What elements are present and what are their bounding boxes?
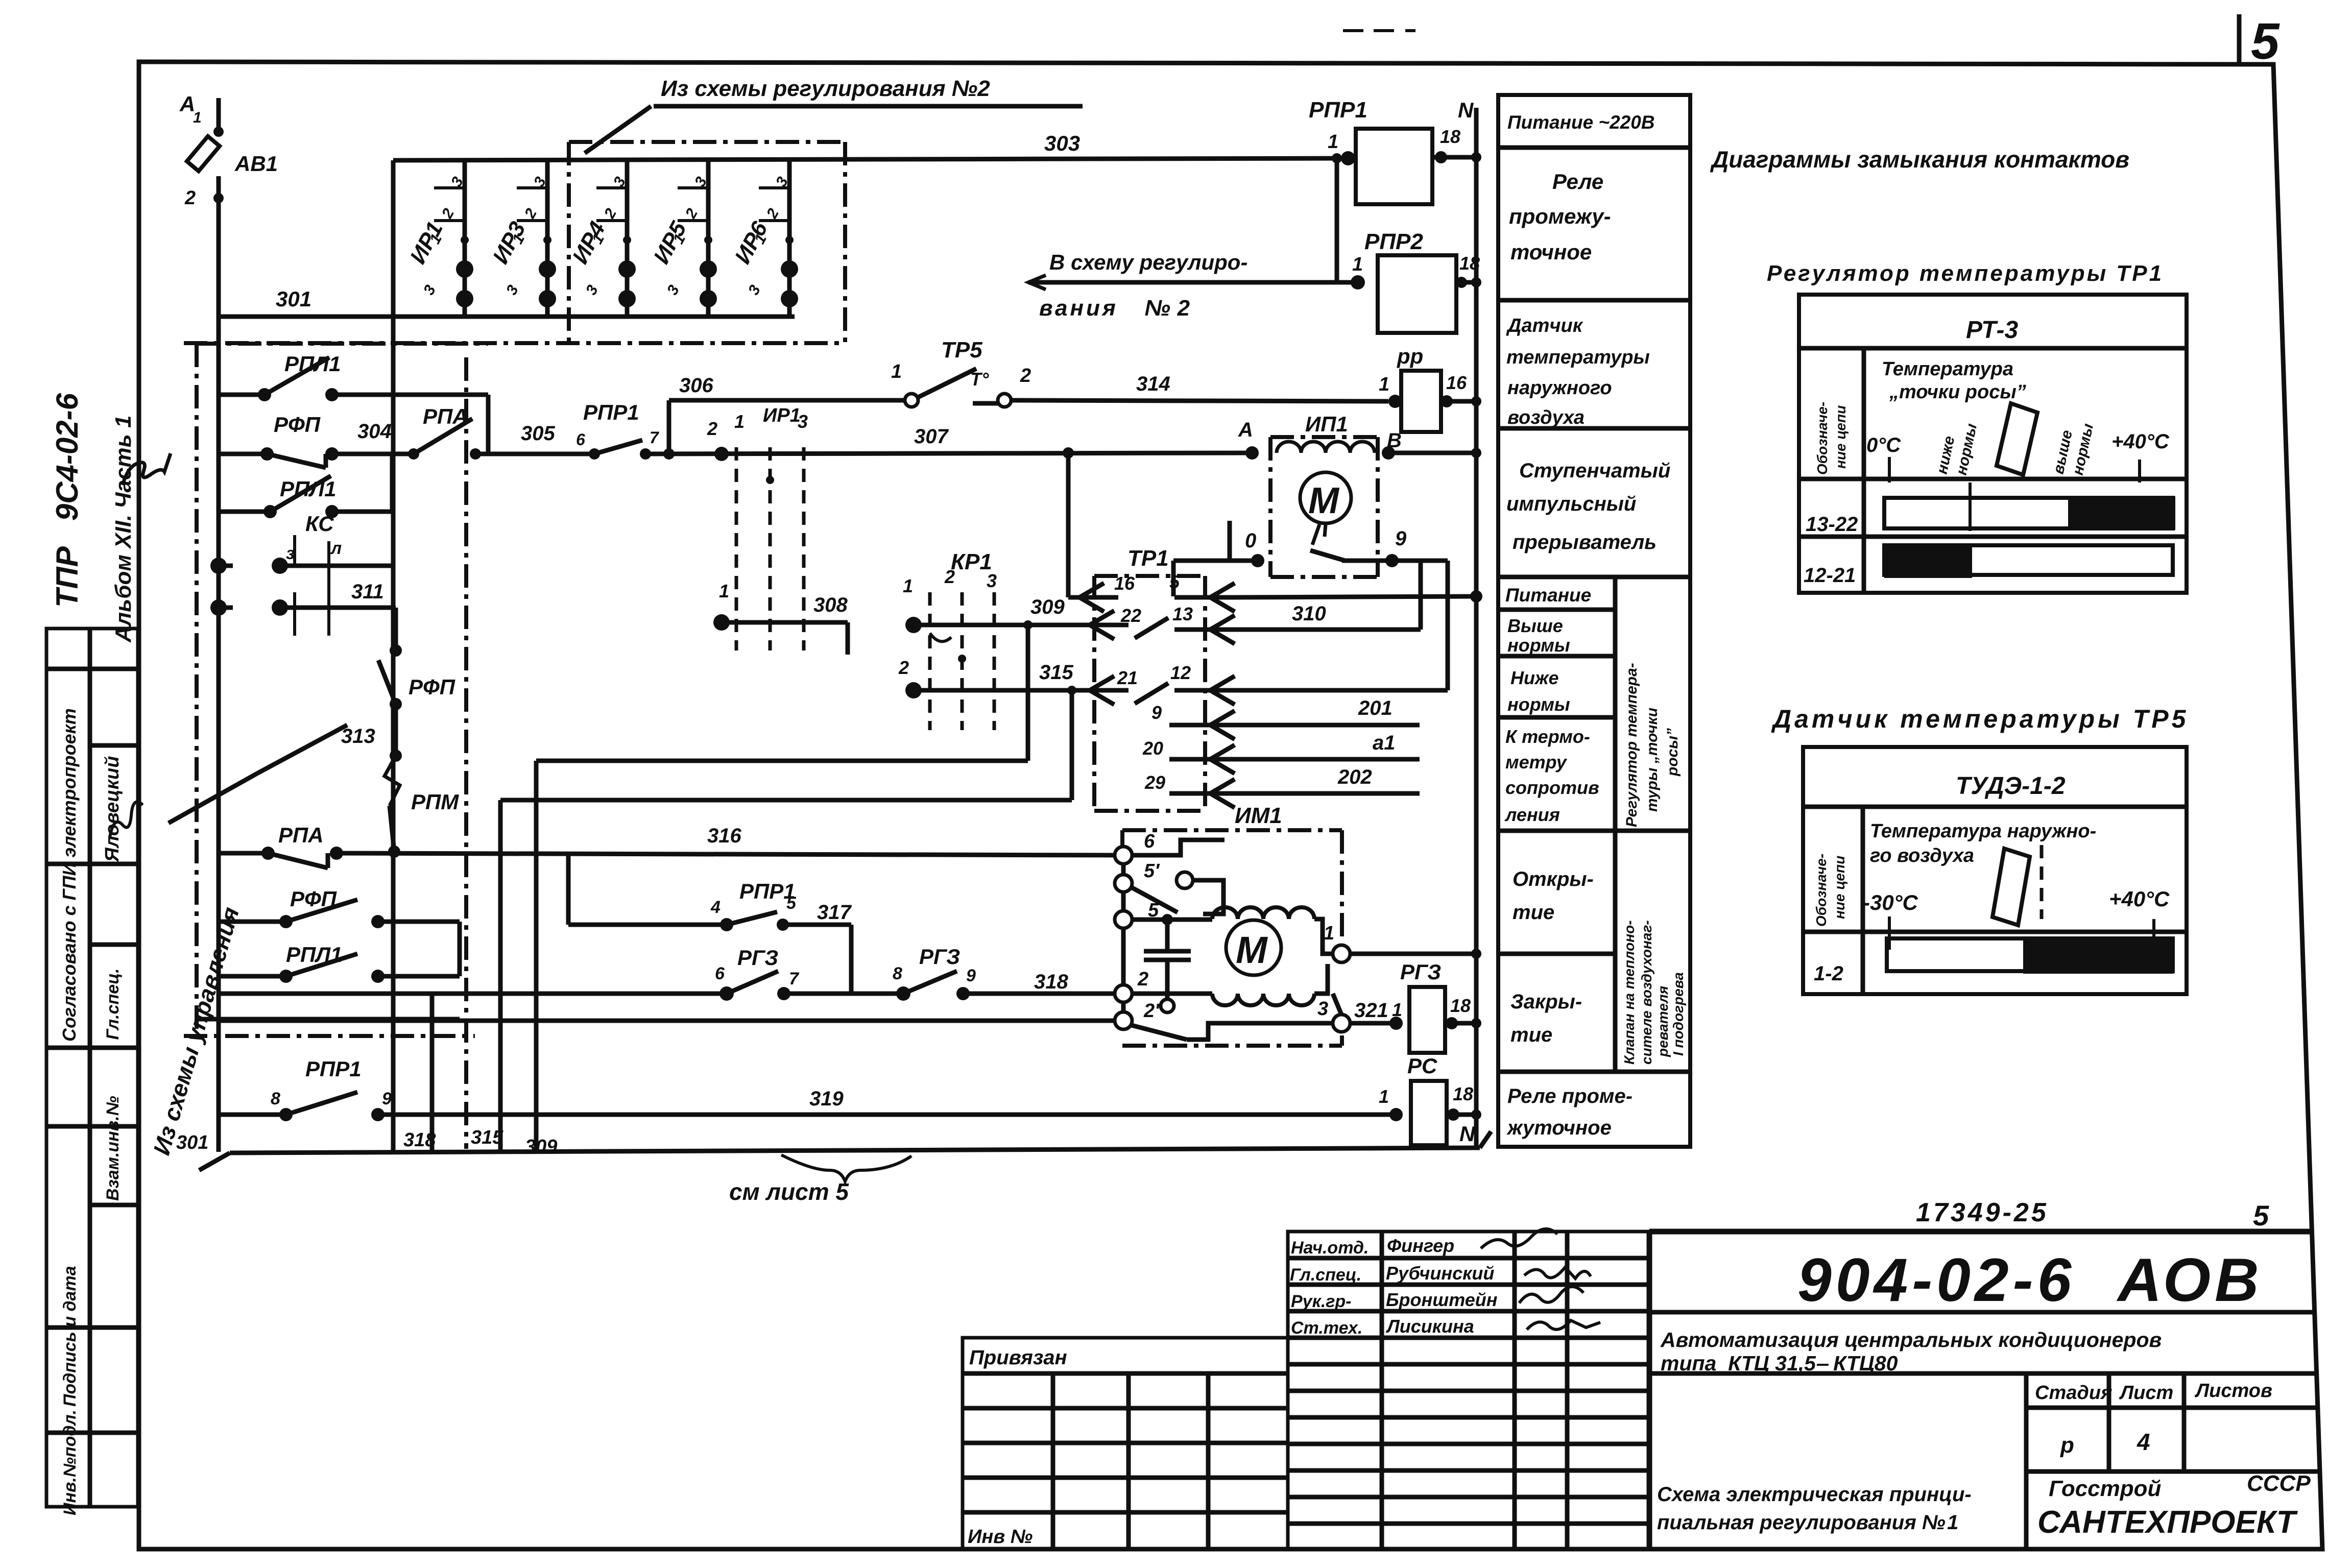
svg-text:РТ-3: РТ-3	[1966, 317, 2018, 344]
svg-text:воздуха: воздуха	[1507, 407, 1585, 428]
svg-text:Схема электрическая принци-: Схема электрическая принци-	[1657, 1483, 1972, 1506]
svg-text:5′: 5′	[1144, 860, 1160, 882]
relay coil PP	[1388, 371, 1476, 432]
svg-text:Гл.спец.: Гл.спец.	[1290, 1265, 1361, 1285]
svg-text:РГЗ: РГЗ	[737, 946, 778, 970]
svg-text:2: 2	[1137, 969, 1148, 990]
IM1 terminals left	[1115, 840, 1333, 1040]
TUDE-1-2 diagram table	[1803, 747, 2187, 994]
svg-text:ления: ления	[1504, 804, 1560, 825]
contact RPL1 row2	[219, 454, 392, 518]
vertical line x770 (IR box left edge / link)	[391, 160, 396, 1027]
svg-text:301: 301	[276, 287, 311, 311]
svg-text:309: 309	[1030, 596, 1065, 618]
svg-text:Т°: Т°	[970, 369, 989, 390]
svg-text:Лист: Лист	[2119, 1382, 2173, 1404]
svg-text:ИМ1: ИМ1	[1235, 803, 1282, 828]
svg-text:Альбом ХII. Часть 1: Альбом ХII. Часть 1	[111, 416, 136, 643]
svg-text:Гл.спец.: Гл.спец.	[103, 968, 123, 1045]
svg-text:Питание ~220В: Питание ~220В	[1507, 112, 1655, 133]
svg-text:12-21: 12-21	[1804, 564, 1856, 587]
column IR6	[730, 160, 798, 317]
svg-text:3: 3	[1317, 998, 1328, 1020]
svg-text:нормы: нормы	[1507, 694, 1570, 715]
svg-text:Листов: Листов	[2194, 1380, 2272, 1402]
svg-text:2: 2	[707, 418, 717, 439]
svg-text:пиальная регулирования № 1: пиальная регулирования № 1	[1657, 1511, 1958, 1534]
svg-text:Диаграммы замыкания контактов: Диаграммы замыкания контактов	[1710, 146, 2129, 173]
svg-text:Ст.тех.: Ст.тех.	[1291, 1318, 1362, 1338]
svg-text:з: з	[286, 544, 295, 563]
svg-text:+40°С: +40°С	[2109, 887, 2170, 911]
IM1 motor	[1132, 907, 1476, 1032]
title block signature table	[1288, 1232, 1649, 1549]
svg-text:ТР1: ТР1	[1127, 546, 1169, 571]
svg-text:1-2: 1-2	[1814, 962, 1843, 985]
left vertical bus	[217, 317, 221, 1152]
svg-text:САНТЕХПРОЕКТ: САНТЕХПРОЕКТ	[2037, 1505, 2298, 1540]
svg-text:9: 9	[1395, 527, 1407, 550]
svg-text:ние цепи: ние цепи	[1833, 405, 1849, 469]
svg-text:РФП: РФП	[274, 413, 321, 437]
svg-text:319: 319	[809, 1088, 844, 1110]
wire/bus 301	[219, 315, 795, 319]
row 1999 from IM1 2'	[219, 1019, 1116, 1023]
verticals to bottom bus	[430, 994, 435, 1152]
svg-text:Ступенчатый: Ступенчатый	[1519, 460, 1670, 482]
contact RPL1 row1	[219, 357, 488, 454]
svg-text:904-02-6 АОВ: 904-02-6 АОВ	[1797, 1246, 2263, 1314]
svg-text:2: 2	[1020, 365, 1031, 387]
stray dashes top middle	[1343, 29, 1363, 32]
svg-text:18: 18	[1440, 126, 1460, 147]
center dash-dot boundary	[464, 357, 468, 1149]
svg-text:304: 304	[357, 420, 392, 443]
left stamp table	[46, 629, 138, 1507]
svg-text:Автоматизация центральных конд: Автоматизация центральных кондиционеров	[1660, 1328, 2162, 1352]
svg-text:Выше: Выше	[1507, 615, 1563, 636]
svg-text:310: 310	[1292, 602, 1326, 625]
svg-text:ние цепи: ние цепи	[1832, 856, 1847, 919]
TP1 right pins 5 13 12	[1174, 583, 1236, 705]
svg-text:7: 7	[650, 428, 660, 447]
svg-text:1: 1	[1324, 923, 1334, 944]
middle legend table	[1498, 95, 1690, 1147]
svg-text:4: 4	[710, 898, 721, 917]
svg-text:типа КТЦ 31,5‒ КТЦ80: типа КТЦ 31,5‒ КТЦ80	[1661, 1352, 1898, 1375]
svg-text:Регулятор темпера-: Регулятор темпера-	[1623, 663, 1640, 827]
svg-text:3: 3	[798, 411, 808, 432]
svg-text:N: N	[1459, 1122, 1476, 1146]
svg-text:сителе воздухонаг-: сителе воздухонаг-	[1639, 920, 1654, 1065]
svg-text:8: 8	[893, 964, 902, 983]
svg-text:1: 1	[891, 361, 902, 382]
svg-text:ревателя: ревателя	[1655, 986, 1671, 1057]
RT-3 diagram table	[1799, 295, 2187, 593]
svg-text:импульсный: импульсный	[1506, 493, 1636, 515]
svg-text:Подпись и дата: Подпись и дата	[60, 1266, 80, 1407]
relay coil RPR2	[1378, 255, 1476, 333]
IR contact columns group	[405, 160, 798, 317]
svg-text:13-22: 13-22	[1806, 513, 1858, 536]
RGZ contact row 1957	[219, 971, 1116, 1001]
dew point parallelogram symbol RT-3	[1997, 403, 2037, 475]
svg-text:Реле проме-: Реле проме-	[1507, 1085, 1633, 1107]
contact RPR1 row 8-9 bottom	[219, 1092, 1396, 1121]
svg-text:2: 2	[184, 187, 196, 209]
contact row 311	[210, 592, 396, 636]
svg-text:16: 16	[1446, 372, 1467, 393]
svg-text:6: 6	[715, 964, 725, 983]
svg-text:Реле: Реле	[1552, 170, 1603, 194]
contact RFP row (lower block)	[219, 900, 460, 928]
N bus vertical	[1470, 108, 1482, 1149]
svg-text:Ниже: Ниже	[1510, 667, 1559, 688]
svg-text:ТУДЭ-1-2: ТУДЭ-1-2	[1956, 773, 2066, 800]
svg-text:РПР1: РПР1	[305, 1057, 362, 1081]
junction vertical to RPR2	[1332, 153, 1365, 290]
svg-text:5: 5	[786, 894, 797, 913]
main title block right	[1649, 1232, 2320, 1549]
svg-text:Стадия: Стадия	[2035, 1382, 2112, 1404]
svg-text:-30°С: -30°С	[1863, 890, 1918, 914]
svg-text:1: 1	[719, 581, 729, 601]
actuator IM1 block	[1122, 830, 1342, 1046]
svg-text:К термо-: К термо-	[1505, 726, 1590, 747]
svg-text:Обозначе-: Обозначе-	[1814, 402, 1830, 475]
svg-text:18: 18	[1450, 995, 1471, 1016]
svg-text:а1: а1	[1373, 732, 1396, 754]
svg-text:6: 6	[1144, 831, 1155, 852]
svg-text:306: 306	[679, 374, 713, 397]
svg-text:РПЛ1: РПЛ1	[280, 477, 336, 501]
svg-text:РПА: РПА	[278, 823, 324, 847]
svg-text:Взам.инв.№: Взам.инв.№	[103, 1096, 123, 1201]
svg-text:росы”: росы”	[1664, 728, 1681, 777]
svg-text:КС: КС	[305, 512, 334, 536]
svg-text:29: 29	[1144, 772, 1165, 793]
signatures squiggles	[1481, 1229, 1557, 1248]
svg-text:307: 307	[914, 425, 949, 448]
svg-text:1: 1	[1328, 131, 1338, 153]
svg-text:1: 1	[193, 109, 202, 126]
svg-text:16: 16	[1114, 573, 1135, 594]
svg-text:РПР1: РПР1	[583, 400, 639, 424]
svg-text:314: 314	[1136, 373, 1170, 395]
svg-text:316: 316	[707, 825, 741, 847]
wire from B to N bus	[1388, 451, 1476, 455]
svg-text:2: 2	[944, 566, 955, 587]
svg-text:1: 1	[1392, 999, 1402, 1020]
svg-text:2′: 2′	[1143, 1000, 1160, 1022]
svg-text:Температура: Температура	[1882, 358, 2013, 380]
TP1 lower pins 9 20 29	[1169, 711, 1236, 808]
svg-text:сопротив: сопротив	[1505, 777, 1599, 798]
svg-text:0: 0	[1245, 529, 1256, 552]
row 316 / RPA contact	[219, 847, 1115, 868]
svg-text:наружного: наружного	[1507, 377, 1612, 399]
svg-text:317: 317	[817, 901, 852, 924]
svg-text:318: 318	[1034, 971, 1068, 993]
svg-text:4: 4	[2137, 1429, 2150, 1455]
svg-text:л: л	[330, 539, 342, 558]
svg-text:вания № 2: вания № 2	[1039, 296, 1192, 321]
svg-text:РПЛ1: РПЛ1	[286, 943, 342, 967]
svg-text:3: 3	[987, 570, 997, 591]
svg-text:315: 315	[1039, 661, 1073, 684]
svg-text:9: 9	[1151, 702, 1162, 723]
svg-text:1: 1	[1352, 254, 1363, 275]
svg-text:Рук.гр-: Рук.гр-	[1291, 1292, 1352, 1311]
svg-text:Привязан: Привязан	[969, 1346, 1067, 1369]
dash-dot box left contact group	[197, 342, 488, 346]
branch 317 with RPR1 contact	[568, 855, 851, 994]
contact KC row	[210, 535, 393, 602]
svg-text:нормы: нормы	[1507, 635, 1570, 656]
svg-text:Температура наружно-: Температура наружно-	[1870, 821, 2096, 842]
wire 309	[914, 623, 1094, 628]
svg-text:Обозначе-: Обозначе-	[1813, 854, 1829, 927]
svg-text:РПР2: РПР2	[1364, 229, 1423, 254]
vertical RFP/RPM chain x775	[378, 608, 402, 858]
svg-text:РПЛ1: РПЛ1	[284, 352, 341, 376]
svg-text:303: 303	[1044, 131, 1080, 155]
wire 308	[713, 614, 848, 655]
svg-text:Нач.отд.: Нач.отд.	[1291, 1238, 1369, 1258]
svg-text:р: р	[2060, 1433, 2074, 1458]
svg-text:АВ1: АВ1	[234, 152, 278, 176]
svg-text:1: 1	[903, 575, 913, 596]
svg-text:метру: метру	[1505, 752, 1568, 773]
IR1 dashed linkage over 307/308	[714, 447, 804, 650]
svg-text:12: 12	[1170, 662, 1191, 683]
svg-text:ИП1: ИП1	[1305, 412, 1348, 436]
TP1 block dashed box	[1094, 576, 1205, 811]
svg-text:тие: тие	[1513, 901, 1554, 924]
svg-text:КР1: КР1	[951, 549, 992, 574]
svg-text:+40°С: +40°С	[2111, 430, 2170, 453]
svg-text:301: 301	[176, 1132, 208, 1153]
svg-text:РПМ: РПМ	[411, 790, 459, 814]
relay coil RPR1	[1341, 129, 1476, 204]
svg-text:Рубчинский: Рубчинский	[1386, 1263, 1494, 1284]
column IR3	[488, 160, 556, 317]
svg-text:Яловецкий: Яловецкий	[102, 756, 123, 862]
svg-text:0°С: 0°С	[1866, 434, 1901, 456]
TP1 outputs to right	[1228, 561, 1476, 793]
svg-text:Клапан на теплоно-: Клапан на теплоно-	[1621, 920, 1637, 1065]
svg-text:промежу-: промежу-	[1509, 204, 1611, 228]
svg-text:Закры-: Закры-	[1510, 991, 1582, 1013]
svg-text:311: 311	[351, 581, 384, 603]
svg-text:рр: рр	[1397, 344, 1423, 368]
svg-text:7: 7	[789, 969, 800, 988]
wire 315	[914, 688, 1094, 693]
reroute wires from KP1/TP1 zone	[500, 625, 1072, 800]
svg-text:305: 305	[521, 422, 555, 445]
svg-text:ИР1: ИР1	[763, 405, 801, 426]
breaker A1 top left	[187, 98, 224, 317]
svg-text:точное: точное	[1510, 240, 1592, 264]
svg-text:Фингер: Фингер	[1387, 1235, 1454, 1256]
wire 303 top bus	[393, 158, 1348, 160]
svg-text:N: N	[1458, 98, 1474, 122]
svg-text:18: 18	[1453, 1083, 1473, 1104]
parallelogram symbol TUDE	[1993, 849, 2030, 925]
column IR4	[568, 160, 636, 317]
lower-left attachment table	[963, 1338, 1288, 1549]
sheet number tick top right	[2237, 14, 2242, 63]
svg-text:Бронштейн: Бронштейн	[1386, 1289, 1498, 1310]
svg-text:РФП: РФП	[409, 675, 455, 699]
svg-text:прерыватель: прерыватель	[1513, 531, 1657, 553]
svg-text:РФП: РФП	[290, 887, 337, 911]
svg-text:8: 8	[271, 1089, 280, 1108]
svg-text:„точки росы”: „точки росы”	[1889, 381, 2026, 403]
svg-text:309: 309	[525, 1136, 557, 1157]
svg-text:РГЗ: РГЗ	[919, 945, 960, 969]
svg-text:РПА: РПА	[423, 404, 468, 428]
contact RPL1 row (lower block)	[219, 922, 460, 983]
svg-text:М: М	[1236, 929, 1268, 971]
column IR5	[649, 160, 717, 317]
svg-text:Инв №: Инв №	[968, 1526, 1033, 1548]
svg-text:6: 6	[576, 430, 585, 449]
svg-text:ТР5: ТР5	[941, 337, 982, 363]
svg-text:1: 1	[1379, 1086, 1389, 1107]
svg-text:308: 308	[813, 594, 848, 616]
svg-text:М: М	[1308, 480, 1340, 521]
svg-text:жуточное: жуточное	[1506, 1117, 1612, 1139]
svg-text:Лисикина: Лисикина	[1385, 1316, 1474, 1337]
KP1 contact block	[905, 592, 994, 730]
row 304/305: RFP + RPA + RPR1 contacts	[219, 419, 1252, 468]
svg-text:см лист 5: см лист 5	[729, 1178, 849, 1205]
svg-text:Питание: Питание	[1505, 585, 1591, 606]
svg-text:313: 313	[341, 725, 375, 747]
svg-text:22: 22	[1120, 605, 1141, 626]
svg-text:Госстрой: Госстрой	[2049, 1476, 2162, 1501]
bottom collector bus to sheet 5	[199, 1131, 1491, 1170]
svg-text:СССР: СССР	[2247, 1471, 2311, 1496]
svg-text:2: 2	[898, 657, 909, 678]
svg-text:201: 201	[1358, 697, 1393, 719]
dash-dot box around IR4-IR6	[184, 142, 845, 343]
svg-text:ТПР 9С4-02-6: ТПР 9С4-02-6	[50, 393, 84, 608]
svg-text:Из схемы регулирования №2: Из схемы регулирования №2	[661, 76, 990, 101]
svg-text:Согласовано с ГПИ электропроек: Согласовано с ГПИ электропроект	[59, 708, 80, 1042]
column IR1	[405, 160, 473, 317]
svg-text:5: 5	[2251, 13, 2280, 70]
svg-text:РПР1: РПР1	[1309, 98, 1367, 123]
svg-text:13: 13	[1172, 604, 1193, 624]
svg-text:9: 9	[966, 966, 976, 985]
see sheet 5 brace and text	[781, 1155, 911, 1181]
wire 306 and TP5 contact	[663, 369, 1388, 460]
svg-text:РС: РС	[1407, 1054, 1437, 1078]
svg-text:20: 20	[1142, 738, 1163, 759]
svg-text:5: 5	[2253, 1199, 2269, 1232]
svg-text:9: 9	[382, 1089, 392, 1108]
svg-text:1: 1	[1379, 374, 1389, 395]
svg-text:В схему регулиро-: В схему регулиро-	[1049, 250, 1247, 274]
svg-text:Откры-: Откры-	[1513, 868, 1594, 890]
svg-text:А: А	[1238, 419, 1253, 441]
svg-text:Датчик: Датчик	[1506, 315, 1583, 336]
svg-text:РГЗ: РГЗ	[1400, 960, 1441, 984]
svg-text:321: 321	[1354, 999, 1388, 1022]
svg-text:Регулятор температуры ТР1: Регулятор температуры ТР1	[1767, 261, 2164, 286]
svg-text:1: 1	[734, 411, 745, 432]
svg-text:I подогрева: I подогрева	[1670, 972, 1686, 1056]
arrow to regulation circuit No2	[1028, 275, 1358, 290]
svg-text:17349-25: 17349-25	[1916, 1198, 2049, 1227]
svg-text:21: 21	[1117, 667, 1138, 688]
svg-text:тие: тие	[1510, 1024, 1552, 1046]
TP1 left pins 16 22 21	[1068, 583, 1168, 705]
left margin approval squiggle	[123, 453, 171, 485]
svg-text:температуры: температуры	[1506, 347, 1650, 368]
svg-text:го воздуха: го воздуха	[1870, 845, 1974, 866]
svg-text:Инв.№подл.: Инв.№подл.	[60, 1410, 80, 1515]
svg-text:туры „точки: туры „точки	[1644, 708, 1661, 812]
relay coil PC	[1389, 1081, 1476, 1145]
motor IP1 block	[1173, 437, 1399, 596]
relay coil RGZ	[1409, 987, 1476, 1053]
svg-text:202: 202	[1337, 766, 1372, 788]
svg-text:Датчик температуры ТР5: Датчик температуры ТР5	[1771, 705, 2189, 733]
